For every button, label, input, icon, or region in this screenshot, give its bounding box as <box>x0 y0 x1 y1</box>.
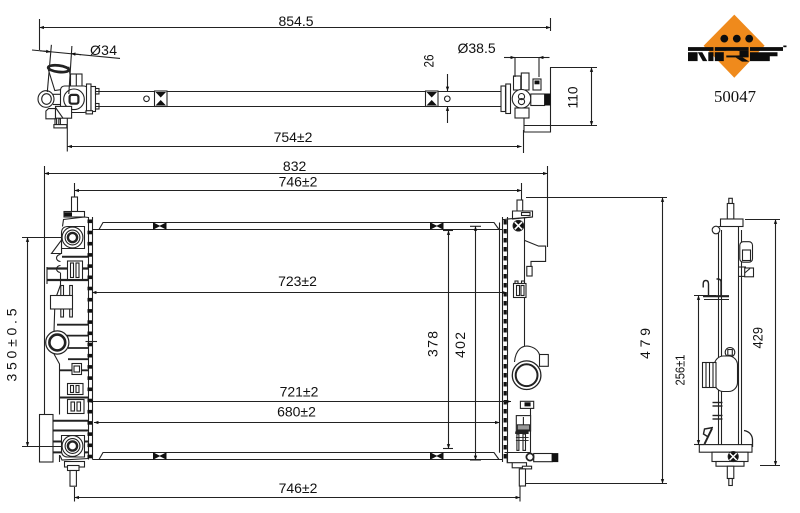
dimension 832 <box>45 158 548 415</box>
side view lower hook <box>704 428 714 445</box>
left tank side bracket <box>40 415 54 463</box>
left tank bolt shafts <box>61 286 73 318</box>
svg-text:680±2: 680±2 <box>277 404 316 420</box>
left tank white box <box>51 296 73 310</box>
svg-text:721±2: 721±2 <box>280 384 319 400</box>
dimension 256+-1 <box>673 296 717 445</box>
right tank filler bracket outline <box>525 241 546 277</box>
right tank big port <box>512 361 541 390</box>
side view upper hook <box>703 279 729 300</box>
right tank pin top <box>513 200 533 219</box>
logo letter R <box>715 47 750 62</box>
left tank connector module 2 <box>68 384 84 395</box>
right tank zipper dashes <box>504 220 507 459</box>
svg-text:350±0.5: 350±0.5 <box>4 308 20 381</box>
dimension 754+-2 <box>67 118 523 153</box>
left tank pin top <box>64 197 85 217</box>
svg-text:754±2: 754±2 <box>274 129 313 145</box>
top view left outlet: angled pipe <box>48 64 72 90</box>
svg-text:50047: 50047 <box>714 87 756 106</box>
left tank oval port centerline tick <box>86 341 98 343</box>
svg-text:378: 378 <box>425 331 441 357</box>
left tank top port housing <box>52 227 85 254</box>
left tank oval port <box>46 331 69 354</box>
logo trademark <box>783 46 786 48</box>
dimension diameter 38.5 <box>458 40 550 77</box>
top view right connector flange <box>501 68 551 133</box>
core top edge <box>93 223 503 230</box>
flange plates <box>87 84 92 114</box>
top view main bar <box>89 92 502 107</box>
bracket outline right <box>524 68 551 133</box>
top view right clip bracket <box>426 91 451 107</box>
left tank core side tabs <box>88 220 93 459</box>
svg-text:746±2: 746±2 <box>279 174 318 190</box>
left tank bottom port housing <box>62 436 85 458</box>
left tank bottom port <box>62 436 83 457</box>
svg-text:26: 26 <box>422 55 437 68</box>
left tank top port <box>62 227 83 248</box>
dimension diameter 34 <box>32 42 120 94</box>
left tank upper rails <box>47 257 89 284</box>
svg-text:Ø34: Ø34 <box>90 42 117 58</box>
right tank hose elbow <box>515 346 549 366</box>
left tank bottom bracket arms <box>53 421 89 453</box>
left tank outline <box>54 217 89 462</box>
right tank drain assembly <box>515 416 530 451</box>
core break mark top left <box>153 222 167 229</box>
logo diamond <box>688 15 787 107</box>
right tank pin bottom <box>519 469 525 486</box>
svg-text:479: 479 <box>637 328 653 359</box>
logo letter N <box>688 47 714 61</box>
right tank clip below port <box>520 401 533 408</box>
foot below body <box>46 109 56 119</box>
svg-text:256±1: 256±1 <box>673 355 688 386</box>
side view overflow clip box <box>740 242 753 263</box>
dimension 746+-2 bottom <box>75 480 521 502</box>
core bottom edge <box>93 453 503 460</box>
dimension 854.5 <box>40 13 551 50</box>
logo letter R counter <box>726 51 738 56</box>
core left boundary <box>89 217 93 460</box>
top view left clip bracket <box>144 91 167 107</box>
svg-text:Ø38.5: Ø38.5 <box>458 40 496 56</box>
right tank crimp seam (zipper) <box>507 217 509 462</box>
svg-text:854.5: 854.5 <box>278 13 313 29</box>
side view pin bottom <box>727 466 734 485</box>
right tank outline <box>503 217 533 463</box>
core break mark bottom left <box>153 452 167 459</box>
dimension 723+-2 <box>92 273 507 293</box>
dimension 479 <box>526 198 668 484</box>
left hook loop <box>38 91 54 108</box>
right tank bottom bracket <box>512 453 558 469</box>
svg-text:429: 429 <box>750 327 766 349</box>
dimension 721+-2 <box>89 384 512 402</box>
svg-text:832: 832 <box>283 158 307 174</box>
logo dots <box>720 35 728 43</box>
dimension 26 <box>422 55 448 124</box>
dimension 680+-2 <box>94 404 500 423</box>
left tank small box with inner square <box>72 364 82 375</box>
left tank spring clips <box>57 255 61 273</box>
left tank connector module 3 <box>68 400 85 414</box>
left tank mid rails <box>55 325 89 398</box>
right tank connector module <box>514 281 527 298</box>
side view port assembly <box>703 356 738 392</box>
left tank connector module 1 <box>68 261 83 280</box>
side view small open box <box>739 267 754 277</box>
dimension 429 <box>745 220 780 466</box>
top view left connector body <box>38 74 99 128</box>
core break mark top right <box>430 222 444 229</box>
dimension 350+-0.5 <box>4 238 63 447</box>
right tank radiator cap <box>513 220 524 231</box>
svg-text:723±2: 723±2 <box>278 273 317 289</box>
logo letter F <box>750 47 783 61</box>
core break mark bottom right <box>430 452 444 459</box>
svg-text:402: 402 <box>452 332 468 358</box>
svg-text:110: 110 <box>565 86 581 108</box>
inlet port body <box>514 76 521 90</box>
side view tick pairs <box>713 403 723 420</box>
side view body <box>712 226 741 455</box>
side view pin top <box>721 198 744 226</box>
dimension 378 <box>425 231 454 449</box>
core right boundary <box>500 217 503 462</box>
svg-text:746±2: 746±2 <box>279 480 318 496</box>
left tank pin bottom <box>65 462 85 487</box>
dimension 746+-2 top <box>75 174 522 201</box>
dimension 402 <box>452 226 481 460</box>
side view boss circle <box>725 348 735 358</box>
dimension 110 <box>524 68 597 126</box>
side view foot assembly <box>699 431 752 467</box>
